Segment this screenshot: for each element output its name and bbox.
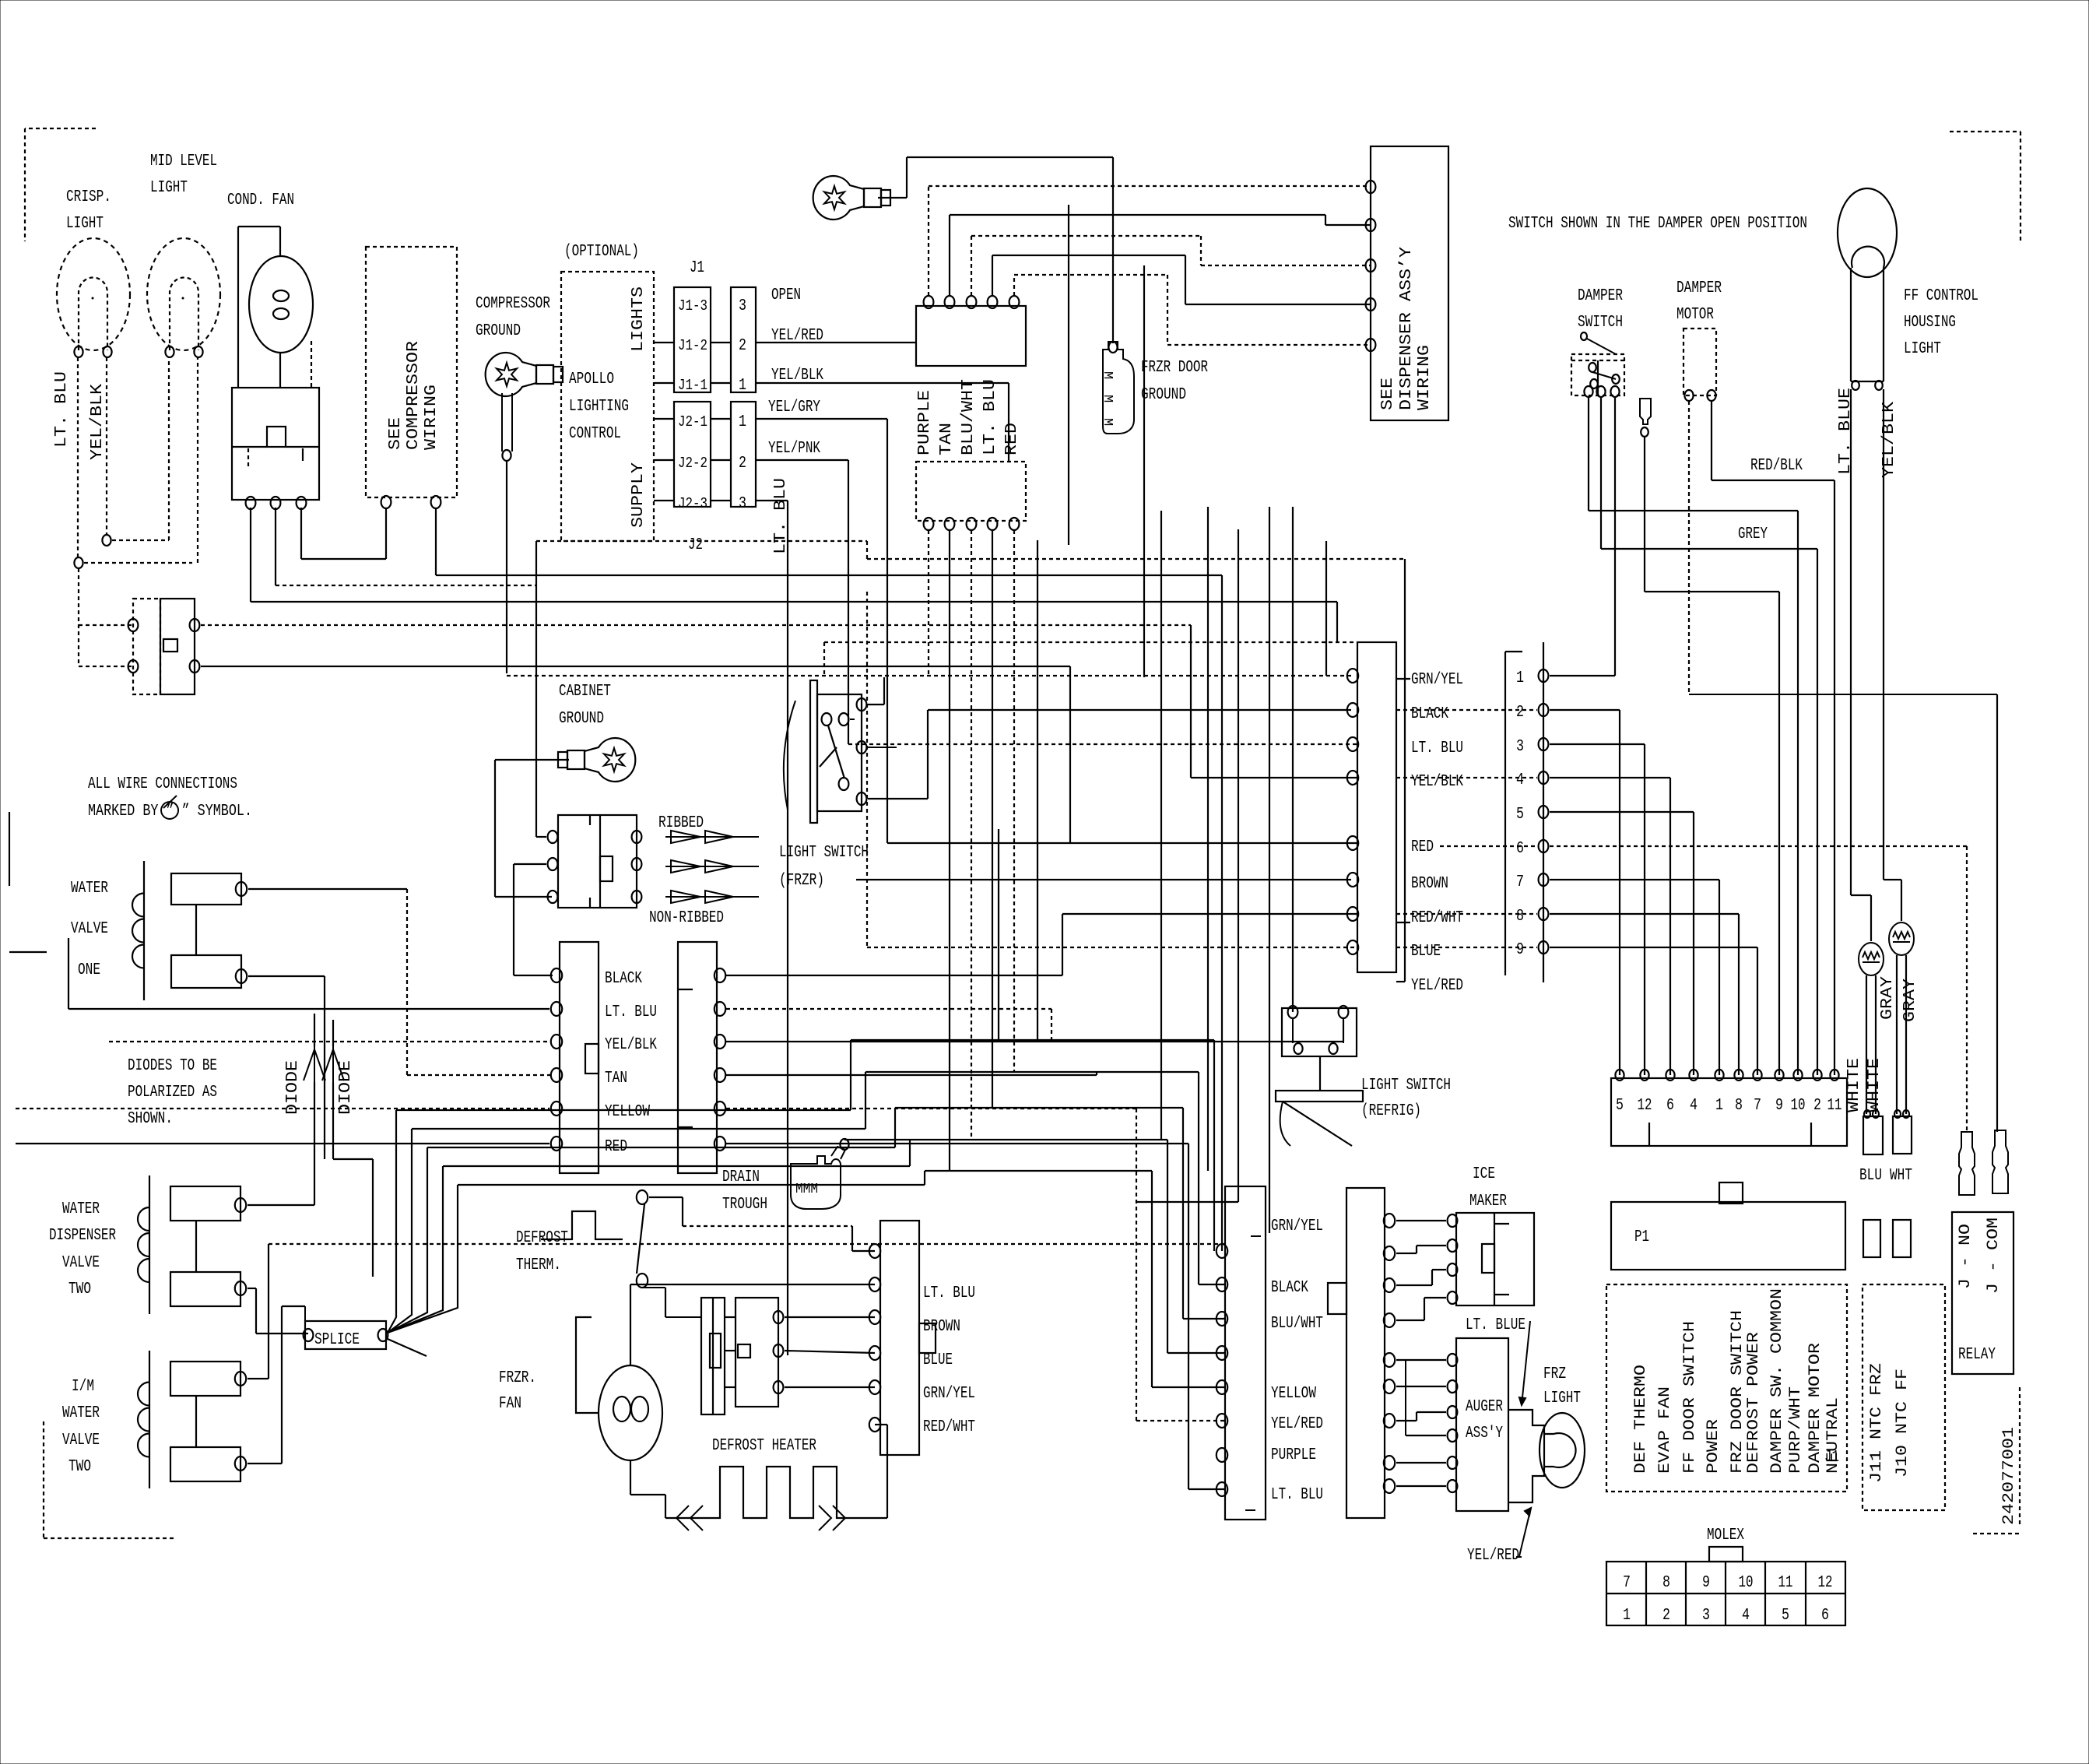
wire LT. BLU long vertical <box>787 501 788 1355</box>
wire down LT. BLU <box>992 530 993 1108</box>
crisp light terminal 1 <box>74 346 83 357</box>
wire link <box>112 539 169 541</box>
wire <box>1416 1246 1417 1253</box>
svg-text:LT. BLU: LT. BLU <box>1411 740 1463 757</box>
auger terminal <box>1448 1354 1458 1366</box>
wire <box>850 719 855 720</box>
splice ray 1 <box>388 1110 396 1333</box>
ice maker terminal <box>1448 1239 1458 1252</box>
svg-text:3: 3 <box>739 297 746 315</box>
svg-text:1: 1 <box>739 377 746 395</box>
wire <box>1014 274 1167 276</box>
wire LT. BLU right <box>756 500 788 501</box>
wire heater t2 <box>785 1351 875 1353</box>
svg-text:YEL/RED: YEL/RED <box>1467 1547 1519 1565</box>
trunk y718 <box>867 558 1405 560</box>
wire <box>501 393 503 452</box>
bottom-mid B terminal 7 <box>1384 1414 1395 1428</box>
svg-text:5: 5 <box>1616 1097 1624 1115</box>
junction <box>102 535 111 546</box>
wire <box>1396 1420 1417 1421</box>
svg-text:MARKED BY ” ” SYMBOL.: MARKED BY ” ” SYMBOL. <box>88 803 252 821</box>
switch frzr terminal 3 <box>857 792 867 805</box>
board terminal 1 <box>1715 1070 1723 1081</box>
cabinet ground lug <box>558 738 635 782</box>
ice maker terminal <box>1448 1214 1458 1227</box>
trunk y868 GRN/YEL <box>507 675 1351 676</box>
terminal <box>1873 1110 1879 1118</box>
wire <box>1185 304 1371 305</box>
wire <box>682 1197 683 1226</box>
wire <box>1805 1562 1806 1625</box>
mesh h1 <box>851 1039 1214 1041</box>
upper connector terminal 3 <box>967 296 977 308</box>
wire damper sw 3 <box>1614 398 1616 676</box>
wire <box>1597 360 1599 395</box>
svg-text:11: 11 <box>1827 1097 1842 1115</box>
ice maker terminal <box>1448 1263 1458 1276</box>
J11 J10 box <box>1863 1284 1945 1510</box>
terminal <box>1329 1043 1337 1054</box>
9-pin terminal 3 <box>1539 738 1549 750</box>
damper pointer circle <box>1581 332 1587 340</box>
trunk v1591 <box>1238 529 1239 1202</box>
wire <box>711 342 731 343</box>
fan coil 1 <box>613 1397 630 1421</box>
FF light terminal 1 <box>1852 381 1859 390</box>
trunk v1492 <box>1160 511 1162 1140</box>
non-ribbed arrow <box>665 891 759 903</box>
connector defrost right <box>880 1221 919 1455</box>
ground lug top <box>813 176 890 220</box>
9-pin terminal 9 <box>1539 941 1549 954</box>
svg-text:1: 1 <box>1715 1097 1723 1115</box>
svg-text:YEL/RED: YEL/RED <box>1271 1415 1323 1433</box>
fan coil 2 <box>631 1397 648 1421</box>
wire up to mid light left <box>168 357 170 540</box>
svg-text:LIGHTS: LIGHTS <box>630 286 648 352</box>
svg-text:BLU/WHT: BLU/WHT <box>1271 1315 1323 1333</box>
wire <box>1185 255 1186 304</box>
svg-text:SPLICE: SPLICE <box>314 1331 360 1349</box>
svg-text:YEL/BLK: YEL/BLK <box>771 367 823 385</box>
wire <box>1396 678 1410 680</box>
harness connector 3pin <box>558 815 637 908</box>
auger terminal <box>1448 1429 1458 1442</box>
wire <box>679 989 693 990</box>
wire RED left <box>16 1143 549 1144</box>
FRZ light bulb <box>1540 1413 1585 1488</box>
svg-text:J1-1: J1-1 <box>678 377 707 394</box>
connector block upper <box>916 306 1026 366</box>
svg-text:J2-2: J2-2 <box>678 455 707 472</box>
wire 9pin right <box>1550 811 1694 813</box>
wire <box>1404 559 1406 982</box>
svg-text:BLU/WHT: BLU/WHT <box>960 379 978 455</box>
thermistor 1 lead B <box>1875 975 1877 1114</box>
svg-text:ASS'Y: ASS'Y <box>1466 1425 1503 1442</box>
svg-text:P1: P1 <box>1634 1228 1649 1246</box>
wire 9pin right <box>1550 777 1670 778</box>
ice maker inner <box>1482 1244 1494 1273</box>
right-mid terminal 5 <box>1347 836 1358 850</box>
crisp light terminal 2 <box>103 346 111 357</box>
left connector notch <box>585 1044 599 1074</box>
wire <box>875 1424 887 1425</box>
wire drain trough <box>844 1139 910 1140</box>
wire <box>1183 1318 1225 1319</box>
trunk v1552 ext <box>1207 887 1209 1171</box>
wire <box>1201 265 1371 266</box>
svg-text:SHOWN.: SHOWN. <box>128 1110 173 1128</box>
wire switch t3 <box>868 798 928 799</box>
defrost therm contact <box>637 1204 644 1274</box>
wire <box>1494 1223 1509 1225</box>
svg-text:7: 7 <box>1623 1574 1631 1592</box>
mesh v4 <box>909 1140 911 1166</box>
drain trough connector <box>678 942 717 1173</box>
spare plug 2 <box>1893 1220 1911 1257</box>
wire therm right <box>649 1196 683 1198</box>
drain connector terminal 4 <box>714 1068 725 1082</box>
wire <box>195 1396 197 1447</box>
trunk v1470 <box>1143 265 1145 677</box>
mesh v1560 <box>1213 1040 1215 1251</box>
wire to YEL/RED <box>1396 981 1405 982</box>
9-pin spine <box>1543 642 1544 982</box>
wire <box>679 1126 693 1128</box>
svg-text:6: 6 <box>1821 1607 1829 1625</box>
P1 notch <box>1719 1182 1743 1204</box>
wire <box>1494 1294 1509 1295</box>
svg-text:10: 10 <box>1791 1097 1806 1115</box>
wire <box>495 896 552 898</box>
trunk y773 <box>251 601 1337 603</box>
3pin terminal L2 <box>548 858 558 870</box>
wire <box>1167 275 1168 345</box>
svg-text:TAN: TAN <box>605 1070 627 1088</box>
svg-text:GRAY: GRAY <box>1879 976 1897 1020</box>
P1 board <box>1611 1202 1845 1270</box>
svg-text:FAN: FAN <box>499 1395 521 1413</box>
svg-text:(REFRIG): (REFRIG) <box>1361 1102 1421 1120</box>
svg-text:MMM: MMM <box>795 1182 818 1197</box>
wire <box>725 1316 736 1318</box>
wire <box>333 1158 373 1160</box>
dispenser terminal <box>1366 259 1376 272</box>
wire <box>1336 602 1338 642</box>
wire <box>1851 894 1871 896</box>
wire fan left <box>576 1317 599 1413</box>
svg-text:YEL/BLK: YEL/BLK <box>605 1036 657 1054</box>
terminal <box>1294 1043 1302 1054</box>
wire <box>1319 1056 1321 1091</box>
bottom-mid A terminal 8 <box>1217 1482 1227 1496</box>
wire <box>929 185 1371 187</box>
water valve one coil A <box>171 873 241 905</box>
harness connector left <box>560 942 599 1173</box>
svg-text:RED/WHT: RED/WHT <box>1411 909 1463 927</box>
wire switch t1 <box>868 704 884 705</box>
svg-text:(FRZR): (FRZR) <box>779 872 824 890</box>
bottom-mid A terminal 6 <box>1217 1414 1227 1428</box>
switch frzr contact 2 <box>839 713 849 726</box>
left edge wire 2 <box>9 951 47 953</box>
drain trough terminal <box>840 1139 848 1150</box>
svg-text:RED: RED <box>1411 838 1434 856</box>
im valve terminal 1 <box>235 1372 246 1386</box>
wire <box>665 1288 666 1317</box>
wire cabinet ground left <box>495 759 569 761</box>
wire switch right 2 <box>201 666 1070 667</box>
cond fan lead <box>279 227 281 255</box>
refrig switch base <box>1276 1091 1363 1102</box>
3pin terminal R1 <box>632 831 642 843</box>
wire <box>1343 1018 1344 1043</box>
drain connector terminal 1 <box>714 968 725 982</box>
svg-text:FRZR DOOR: FRZR DOOR <box>1141 359 1208 377</box>
wire <box>1817 549 1818 1075</box>
svg-text:6: 6 <box>1516 840 1524 858</box>
wire YELLOW left <box>16 1108 549 1109</box>
diode 1 <box>304 1046 325 1082</box>
trunk y695 <box>536 540 867 542</box>
splice wire 2 <box>412 1128 865 1130</box>
svg-text:M: M <box>1100 418 1115 426</box>
wire <box>1550 675 1615 676</box>
auger terminal <box>1448 1480 1458 1492</box>
trunk v1661 <box>1292 507 1294 710</box>
wire <box>665 1495 666 1518</box>
diode 2 <box>322 1046 344 1082</box>
wire damper sw 2 GREY <box>1600 398 1602 549</box>
wire to LT. BLU terminal <box>848 743 1357 745</box>
frzr door ground terminal <box>1108 342 1117 353</box>
svg-text:TWO: TWO <box>68 1458 91 1476</box>
wire YEL/RED to connector <box>756 342 916 343</box>
wire <box>1070 842 1357 844</box>
wire <box>992 255 1185 256</box>
junction <box>74 557 83 568</box>
wire down PURPLE <box>928 530 929 676</box>
plug BLU <box>1863 1116 1883 1154</box>
wire <box>1198 1072 1199 1284</box>
dispenser terminal <box>1366 219 1376 231</box>
thermistor 2 lead A <box>1896 955 1898 1114</box>
svg-text:EVAP FAN: EVAP FAN <box>1656 1386 1674 1474</box>
wire <box>866 541 868 559</box>
wire ground right <box>878 197 907 199</box>
svg-text:FF DOOR SWITCH: FF DOOR SWITCH <box>1681 1321 1699 1474</box>
wire damper sw 1 <box>1588 398 1589 511</box>
wire <box>324 976 325 1159</box>
thermistor 2 lead B <box>1905 955 1907 1114</box>
wire <box>281 1306 283 1464</box>
svg-text:NON-RIBBED: NON-RIBBED <box>649 909 724 927</box>
defrost connector terminal 4 <box>869 1346 880 1360</box>
defrost connector terminal 5 <box>869 1380 880 1394</box>
svg-text:APOLLO: APOLLO <box>569 371 614 388</box>
svg-text:LT. BLU: LT. BLU <box>923 1284 975 1302</box>
wire BLU/WHT up <box>971 236 972 296</box>
switch frzr contact 3 <box>839 778 849 790</box>
wire YEL/BLK left <box>109 1041 549 1042</box>
wire <box>24 128 26 241</box>
wire wd valve 2 <box>248 1288 256 1289</box>
trunk y825 <box>824 641 1357 643</box>
mid level light bulb <box>147 238 220 350</box>
frz bulb inner <box>1544 1433 1576 1467</box>
wire compressor ground down <box>506 461 507 673</box>
stub J2-2 <box>654 459 674 461</box>
wire <box>1188 1488 1225 1490</box>
svg-text:2: 2 <box>739 337 746 355</box>
wd valve coil A <box>170 1186 240 1221</box>
wire drain 5 <box>726 1108 1136 1109</box>
svg-text:12: 12 <box>1638 1097 1652 1115</box>
right-mid terminal 4 <box>1347 771 1358 785</box>
wire 9pin right <box>1550 879 1719 880</box>
trunk v689 <box>535 541 537 837</box>
svg-text:TWO: TWO <box>68 1281 91 1298</box>
wire fan B down <box>275 508 276 585</box>
mesh v1 <box>850 1040 851 1110</box>
right-mid terminal 1 <box>1347 669 1358 683</box>
wire <box>494 760 496 897</box>
wire heater t3 <box>785 1386 875 1388</box>
svg-text:BLACK: BLACK <box>605 970 642 988</box>
9-pin terminal 7 <box>1539 873 1549 886</box>
wire LT. BLU long left <box>68 1008 549 1010</box>
wire B-ice 4 <box>1424 1297 1446 1298</box>
svg-text:SWITCH SHOWN IN THE DAMPER OPE: SWITCH SHOWN IN THE DAMPER OPEN POSITION <box>1508 215 1807 233</box>
svg-text:COMPRESSOR: COMPRESSOR <box>476 295 550 313</box>
drain trough bowl <box>791 1156 841 1209</box>
wire 3pin left 2 <box>514 863 546 865</box>
wire valve one right <box>248 888 407 890</box>
wire <box>195 1221 197 1272</box>
wire <box>1325 215 1326 225</box>
FRZR DOOR GROUND tab <box>1100 342 1134 434</box>
wire <box>1834 480 1835 1075</box>
wire <box>1062 914 1063 975</box>
wire <box>1851 381 1884 382</box>
svg-text:DEF THERMO: DEF THERMO <box>1632 1365 1650 1474</box>
wire to RED terminal <box>887 842 1357 844</box>
damper switch lever <box>1592 372 1616 379</box>
9-pin terminal 4 <box>1539 771 1549 784</box>
wire <box>1136 1420 1225 1421</box>
heater core tab <box>710 1334 721 1368</box>
defrost connector terminal 1 <box>869 1244 880 1258</box>
upper connector terminal 1 <box>924 296 934 308</box>
switch terminal 1 <box>128 619 139 631</box>
wire <box>630 1494 665 1495</box>
wire drain 6 <box>726 1143 1188 1144</box>
damper motor terminal 2 <box>1707 390 1715 401</box>
splice ray 5 <box>388 1185 458 1333</box>
wire <box>1966 846 1968 1132</box>
svg-text:ICE: ICE <box>1473 1165 1495 1183</box>
wire drain 4 <box>726 1074 1097 1076</box>
SPLICE box <box>305 1321 386 1349</box>
APOLLO LIGHTING CONTROL box <box>561 272 654 541</box>
FF light terminal 2 <box>1875 381 1883 390</box>
left connector terminal 3 <box>551 1035 562 1049</box>
mesh v5 <box>924 1171 925 1185</box>
svg-text:BROWN: BROWN <box>923 1318 960 1336</box>
wire <box>1151 1171 1153 1387</box>
splice terminal left <box>304 1329 314 1341</box>
wire <box>1396 1284 1432 1286</box>
svg-text:LT. BLUE: LT. BLUE <box>1837 388 1855 475</box>
spare plug 1 <box>1863 1220 1880 1257</box>
svg-text:MOTOR: MOTOR <box>1676 306 1714 324</box>
wire <box>1757 947 1758 1075</box>
trunk y739 <box>436 575 1222 576</box>
cond fan frame left <box>237 227 239 388</box>
svg-text:6: 6 <box>1666 1097 1674 1115</box>
svg-text:DAMPER SW. COMMON: DAMPER SW. COMMON <box>1768 1288 1786 1474</box>
light switch FRZR plate <box>810 680 817 823</box>
wire drain 2 <box>726 1008 1052 1010</box>
svg-text:3: 3 <box>1516 738 1524 756</box>
wire <box>195 905 197 955</box>
trunk y752 <box>276 585 536 586</box>
svg-text:LT. BLU: LT. BLU <box>605 1003 657 1021</box>
wire <box>2020 132 2021 244</box>
wire <box>248 448 249 469</box>
svg-text:TROUGH: TROUGH <box>722 1196 767 1214</box>
switch frzr terminal 2 <box>857 741 867 754</box>
wire <box>1008 383 1009 462</box>
svg-text:VALVE: VALVE <box>71 920 108 938</box>
wire <box>282 1305 305 1307</box>
connector plug 123 <box>731 402 756 507</box>
compressor box terminal 2 <box>431 496 441 508</box>
svg-text:J1-2: J1-2 <box>678 337 707 354</box>
damper switch contact 1 <box>1589 363 1596 372</box>
bottom-mid A terminal 4 <box>1217 1346 1227 1360</box>
wire switch right long <box>201 624 1191 626</box>
svg-text:FRZ: FRZ <box>1543 1365 1566 1383</box>
defrost switch dashed section <box>133 599 160 694</box>
wire heater t1 <box>785 1316 875 1318</box>
svg-text:4: 4 <box>1516 771 1524 789</box>
compressor ground lug <box>486 353 563 396</box>
svg-text:DEFROST POWER: DEFROST POWER <box>1745 1332 1763 1474</box>
splice ray 3 <box>388 1147 427 1333</box>
wire long right <box>269 1243 1225 1245</box>
auger terminal <box>1448 1380 1458 1393</box>
refrig switch terminal 2 <box>1339 1006 1349 1018</box>
svg-text:J2-3: J2-3 <box>678 495 707 512</box>
svg-text:PURPLE: PURPLE <box>1271 1446 1316 1464</box>
svg-text:3: 3 <box>739 495 746 513</box>
FF light tube right <box>1883 268 1884 381</box>
frz light socket <box>1508 1410 1544 1502</box>
wire <box>1188 1144 1189 1489</box>
svg-text:YEL/BLK: YEL/BLK <box>89 384 107 460</box>
svg-text:WHT: WHT <box>1890 1167 1912 1185</box>
svg-text:2: 2 <box>1813 1097 1821 1115</box>
wire <box>1601 548 1817 550</box>
plug WHT <box>1893 1116 1912 1154</box>
FF housing light bulb <box>1838 188 1897 277</box>
wire <box>1199 1284 1225 1285</box>
wd valve coil <box>138 1175 149 1314</box>
wire to switch terminal 2 <box>79 666 133 667</box>
